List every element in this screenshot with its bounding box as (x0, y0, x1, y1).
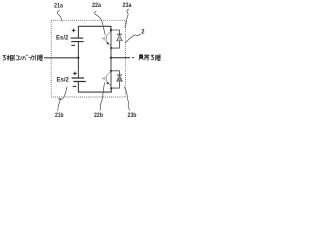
kanji FU (load) (139, 54, 144, 60)
wire output dash-dot tail (132, 57, 135, 59)
diode D 23a connection stubs (111, 30, 120, 48)
capacitor C 21b plus sign (73, 72, 77, 76)
IGBT Q 22b gate lead (101, 78, 104, 80)
svg-text:23b: 23b (128, 112, 137, 119)
leader for 23a (125, 9, 129, 28)
node output midpoint (110, 57, 112, 59)
leader for 2 (125, 34, 140, 43)
leader for 21a (57, 10, 62, 21)
kanji KA (load2) (144, 54, 149, 60)
dashed box unit 2 outline (51, 20, 125, 97)
node bottom of Q22a (110, 47, 112, 49)
svg-text:Es/2: Es/2 (57, 77, 70, 84)
svg-text:21a: 21a (54, 2, 63, 9)
katakana n (19, 56, 22, 60)
capacitor C 21b minus sign (73, 85, 77, 87)
capacitor C 21b plates (72, 78, 86, 82)
IGBT Q 22a collector lead (106, 30, 111, 36)
wire bottom rail (78, 82, 111, 92)
capacitor C 21a minus sign (71, 44, 75, 46)
leader for 23b (124, 87, 129, 111)
katakana ha with dakuten (23, 55, 29, 60)
katakana ta (30, 55, 34, 61)
leader for 22b (100, 83, 105, 111)
IGBT Q 22a gate lead (101, 38, 104, 40)
capacitor C 21a plus sign (72, 29, 76, 33)
node top of Q22a (110, 29, 112, 31)
wire top rail (78, 26, 111, 38)
diode D 23a triangle (117, 35, 123, 41)
svg-text:22a: 22a (92, 2, 101, 9)
wire switch chain upper (110, 30, 112, 48)
katakana ko (16, 56, 19, 60)
node top of Q22b (110, 70, 112, 72)
katakana long dash (29, 56, 31, 58)
digit 3 (151, 55, 154, 60)
paren close (34, 55, 37, 61)
IGBT Q 22b collector lead (106, 71, 111, 76)
svg-text:Es/2: Es/2 (56, 35, 69, 42)
diode D 23a cathode bar (117, 33, 122, 35)
kanji GAWA (side) (155, 55, 160, 61)
svg-text:22b: 22b (94, 112, 103, 119)
paren open (13, 55, 16, 61)
IGBT Q 22a bars (104, 36, 106, 42)
svg-text:21b: 21b (55, 112, 64, 119)
svg-text:2: 2 (141, 30, 145, 36)
wire output to load (111, 57, 130, 59)
IGBT Q 22b bars (104, 76, 106, 82)
svg-text:23a: 23a (123, 2, 132, 9)
node bottom of Q22b (110, 87, 112, 89)
wire switch chain middle (110, 48, 112, 71)
right net label: load side (drawn glyphs) (139, 54, 161, 60)
diode D 23b cathode bar (117, 74, 122, 76)
wire switch chain lower (110, 71, 112, 88)
glyph kanji GAWA (side) (37, 55, 42, 61)
wire capacitor chain middle (77, 42, 79, 78)
left net label: 3-phase converter side (drawn glyphs) (3, 55, 43, 61)
leader for 21b (58, 87, 67, 112)
wire left line to converter side (44, 57, 78, 59)
glyph kanji SOU (phase) (7, 55, 13, 61)
node capacitor midpoint (77, 57, 79, 59)
glyph 3 (3, 55, 6, 60)
IGBT Q 22b emitter lead with arrow (106, 81, 111, 85)
diode D 23b connection stubs (111, 71, 120, 88)
leader for 22a (94, 11, 105, 35)
diode D 23b triangle (117, 75, 123, 81)
IGBT Q 22a emitter lead with arrow (106, 42, 111, 46)
capacitor C 21a plates (71, 38, 84, 42)
